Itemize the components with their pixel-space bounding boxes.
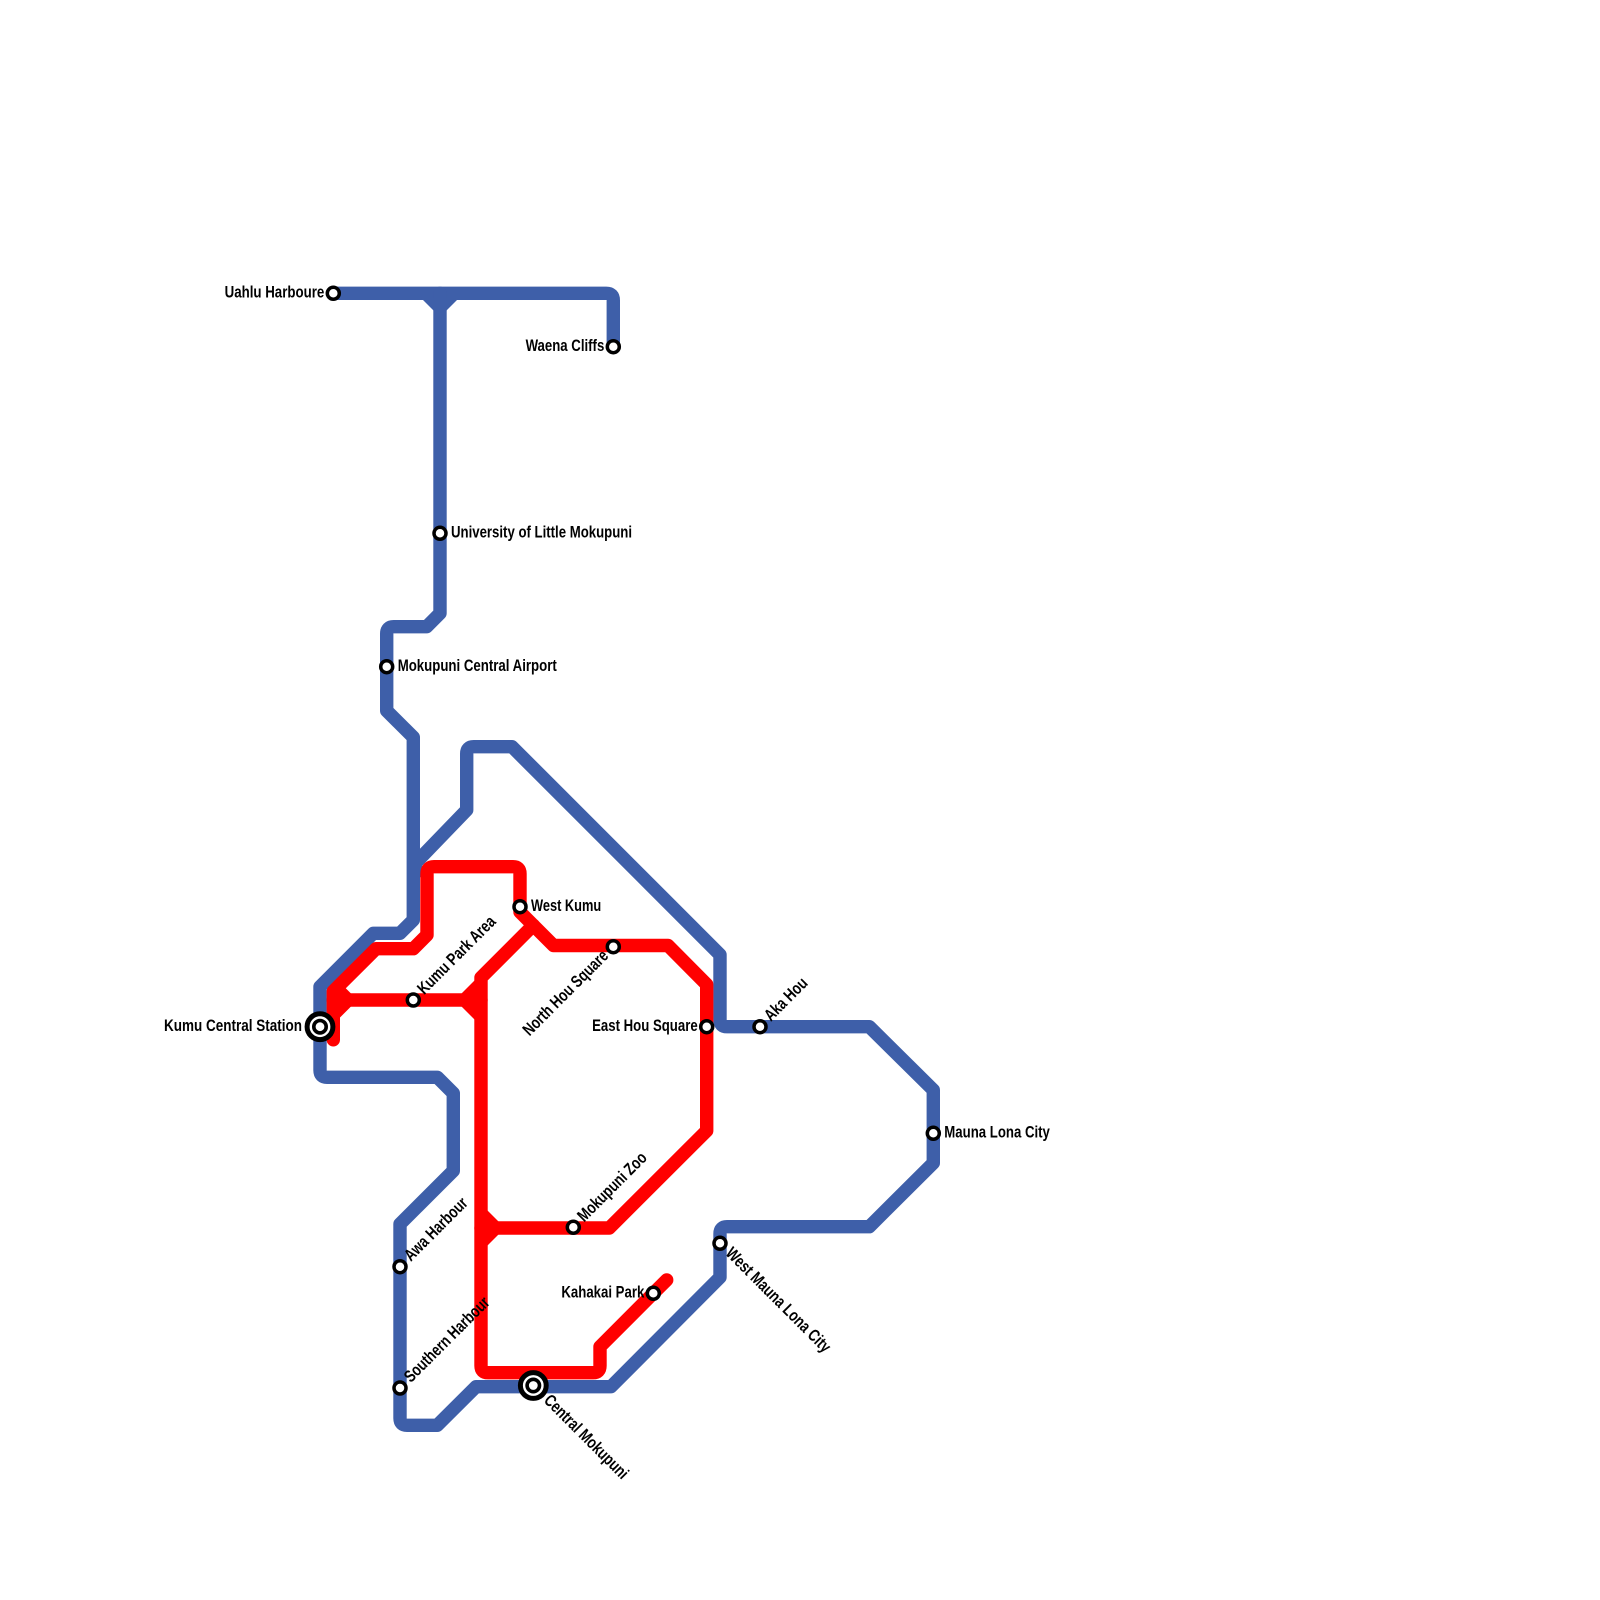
svg-text:East Hou Square: East Hou Square xyxy=(592,1016,698,1035)
station Awa Harbour xyxy=(394,1261,406,1273)
svg-text:Waena Cliffs: Waena Cliffs xyxy=(526,336,605,355)
station West Kumu xyxy=(514,901,526,913)
station Mauna Lona City xyxy=(927,1127,939,1139)
junction fillet: blue V merge at (413,865) xyxy=(419,866,432,879)
svg-text:Mauna Lona City: Mauna Lona City xyxy=(944,1123,1050,1142)
station Mokupuni Central Airport xyxy=(381,661,393,673)
blue line: Waena Cliffs branch xyxy=(333,293,613,346)
red line: Kumu Park Area link xyxy=(333,993,481,1006)
svg-text:Mokupuni Central Airport: Mokupuni Central Airport xyxy=(398,656,557,675)
station East Hou Square xyxy=(701,1021,713,1033)
red line: main (Kumu Central to Mokupuni Zoo) xyxy=(333,867,706,1228)
red line: south branch to Kahakai Park xyxy=(481,925,667,1372)
station Kumu Park Area xyxy=(407,994,419,1006)
station Aka Hou xyxy=(754,1021,766,1033)
junction fillet: blue T at Uahlu branch xyxy=(421,298,435,312)
station Kumu Central Station xyxy=(307,1014,333,1040)
svg-text:West Kumu: West Kumu xyxy=(531,896,601,915)
station Mokupuni Zoo xyxy=(567,1221,579,1233)
junction fillet: red T at (481,1000) xyxy=(460,979,476,995)
junction fillet: red T at (333,1000) xyxy=(339,981,353,995)
blue line: main loop xyxy=(320,293,933,1425)
station Kahakai Park xyxy=(647,1287,659,1299)
svg-text:University of Little Mokupuni: University of Little Mokupuni xyxy=(451,523,632,542)
station Uahlu Harboure xyxy=(327,287,339,299)
svg-text:Uahlu Harboure: Uahlu Harboure xyxy=(225,283,325,302)
junction fillet: red T at (481,1228) xyxy=(486,1209,500,1223)
svg-text:Kumu Central Station: Kumu Central Station xyxy=(164,1016,302,1035)
station Southern Harbour xyxy=(394,1382,406,1394)
svg-text:Kahakai Park: Kahakai Park xyxy=(561,1283,644,1302)
station University of Little Mokupuni xyxy=(434,527,446,539)
station Waena Cliffs xyxy=(607,341,619,353)
station Central Mokupuni xyxy=(520,1373,546,1399)
station West Mauna Lona City xyxy=(714,1237,726,1249)
station North Hou Square xyxy=(607,941,619,953)
